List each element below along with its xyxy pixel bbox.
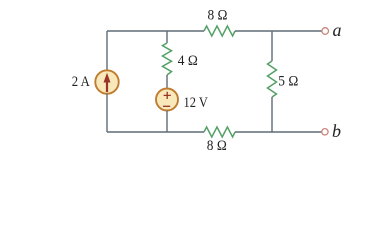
voltage source plus sign: [164, 92, 171, 99]
wire: bottom-right segment from resistor to terminal b: [235, 131, 322, 133]
wire: middle branch between 4-ohm and 12V source: [166, 75, 168, 89]
voltage source minus sign: [163, 105, 170, 107]
terminal a open circle: [322, 28, 329, 35]
wire: left branch lower segment: [106, 94, 108, 132]
wire: middle branch bottom stub: [166, 111, 168, 133]
current source arrow (pointing up): [104, 73, 111, 92]
resistor R top 8-ohm zigzag: [204, 26, 235, 36]
wire: left branch upper segment: [106, 31, 108, 70]
svg-text:4 Ω: 4 Ω: [178, 53, 198, 69]
resistor 4-ohm vertical zigzag: [163, 43, 172, 75]
voltage source V1 12V circle: [156, 89, 178, 111]
resistor bottom 8-ohm zigzag: [204, 127, 235, 137]
terminal b open circle: [322, 129, 328, 135]
svg-text:2 A: 2 A: [72, 74, 90, 90]
wire: top-left segment from left corner to 8-ohm resistor: [107, 30, 204, 32]
svg-text:12 V: 12 V: [184, 95, 209, 111]
svg-text:a: a: [333, 20, 342, 40]
svg-text:8 Ω: 8 Ω: [208, 8, 228, 24]
svg-text:8 Ω: 8 Ω: [207, 138, 227, 154]
wire: right branch upper segment: [271, 31, 273, 61]
wire: top-right segment from resistor to terminal a: [235, 30, 322, 32]
wire: middle branch top stub: [166, 31, 168, 43]
svg-text:b: b: [332, 121, 341, 141]
current source I1 2A circle: [95, 70, 118, 93]
svg-text:5 Ω: 5 Ω: [278, 73, 298, 89]
wire: right branch lower segment: [271, 97, 273, 132]
resistor 5-ohm vertical zigzag: [268, 61, 277, 97]
wire: bottom-left segment from left corner to bottom 8-ohm: [107, 131, 204, 133]
